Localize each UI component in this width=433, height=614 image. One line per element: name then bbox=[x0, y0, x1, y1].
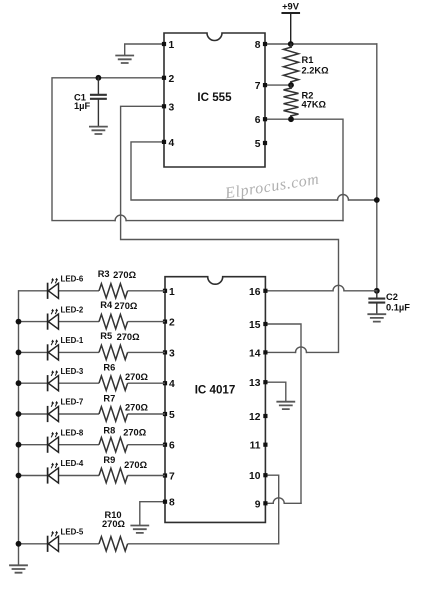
node rail junction LED-5 bbox=[16, 541, 22, 547]
svg-text:LED-4: LED-4 bbox=[61, 459, 84, 468]
svg-text:270Ω: 270Ω bbox=[124, 460, 148, 470]
svg-text:7: 7 bbox=[255, 81, 261, 92]
op-amp U2 : IC 4017 body bbox=[165, 277, 265, 523]
svg-text:11: 11 bbox=[250, 441, 261, 452]
svg-text:4: 4 bbox=[169, 138, 175, 149]
svg-text:270Ω: 270Ω bbox=[125, 403, 149, 413]
wire +9V right rail bbox=[376, 44, 378, 291]
node C1 junction bbox=[96, 75, 102, 81]
wire pin1 555 to ground bbox=[125, 44, 164, 55]
ground (LED rail) bbox=[10, 565, 27, 572]
svg-text:6: 6 bbox=[255, 115, 261, 126]
svg-text:R9: R9 bbox=[103, 455, 115, 465]
svg-text:5: 5 bbox=[255, 139, 261, 150]
svg-text:270Ω: 270Ω bbox=[123, 428, 147, 438]
svg-text:270Ω: 270Ω bbox=[113, 270, 137, 280]
wire pin3 555 to pin14 4017 bbox=[121, 106, 339, 352]
svg-text:8: 8 bbox=[169, 498, 175, 509]
resistor R3 bbox=[99, 284, 128, 298]
node R2/pin6 junction bbox=[288, 116, 294, 122]
wire pin9 4017 to pin15 bbox=[265, 498, 301, 503]
node pin4 rail junction bbox=[374, 197, 380, 203]
svg-text:IC 4017: IC 4017 bbox=[195, 383, 236, 396]
op-amp U1 : IC 555 body bbox=[164, 33, 265, 167]
wire R10 row bbox=[19, 543, 279, 545]
capacitor C2 bbox=[369, 291, 384, 313]
node rail junction LED-4 bbox=[16, 473, 22, 479]
svg-text:R8: R8 bbox=[103, 426, 115, 436]
wire R6 row bbox=[19, 382, 166, 384]
svg-text:2.2KΩ: 2.2KΩ bbox=[302, 66, 330, 76]
svg-text:1µF: 1µF bbox=[74, 101, 91, 111]
wire pin8 555 to rail bbox=[265, 43, 377, 45]
ground (555 pin 1) bbox=[116, 56, 133, 64]
node R1/R2/pin7 junction bbox=[288, 82, 294, 88]
pin number labels 555 bbox=[169, 40, 261, 150]
wire pin6 555 to pin2 wire bbox=[265, 119, 343, 220]
svg-text:13: 13 bbox=[249, 378, 261, 389]
wire left LED rail bbox=[18, 291, 20, 565]
svg-text:LED-3: LED-3 bbox=[61, 367, 84, 376]
svg-text:LED-7: LED-7 bbox=[61, 398, 84, 407]
wire R5 row bbox=[19, 351, 166, 353]
pin number labels 4017 bbox=[169, 287, 261, 511]
LED LED-6 bbox=[48, 278, 59, 299]
resistor R9 bbox=[99, 468, 128, 482]
resistor R10 bbox=[99, 537, 128, 551]
resistor R5 bbox=[99, 345, 128, 359]
node +9V junction bbox=[288, 41, 294, 47]
wire R8 row bbox=[19, 444, 166, 446]
ground (C2) bbox=[368, 314, 385, 321]
LED LED-8 bbox=[48, 432, 59, 453]
svg-text:LED-5: LED-5 bbox=[61, 528, 84, 537]
svg-text:5: 5 bbox=[169, 410, 175, 421]
node rail junction LED-2 bbox=[16, 319, 22, 325]
resistor R1 bbox=[284, 44, 299, 85]
svg-text:270Ω: 270Ω bbox=[102, 519, 126, 529]
node rail junction LED-7 bbox=[16, 411, 22, 417]
LED LED-1 bbox=[48, 339, 59, 360]
node rail junction LED-3 bbox=[16, 380, 22, 386]
svg-text:3: 3 bbox=[169, 348, 175, 359]
svg-text:16: 16 bbox=[249, 287, 261, 298]
svg-text:+9V: +9V bbox=[282, 2, 300, 12]
svg-text:R7: R7 bbox=[103, 394, 115, 404]
LED LED-3 bbox=[48, 370, 59, 391]
wire R4 row bbox=[19, 321, 166, 323]
capacitor C1 bbox=[91, 78, 106, 126]
resistor R2 bbox=[284, 85, 299, 119]
svg-text:15: 15 bbox=[249, 320, 261, 331]
4017 pin pads bbox=[163, 289, 268, 506]
node rail junction LED-8 bbox=[16, 442, 22, 448]
svg-text:C2: C2 bbox=[386, 292, 398, 302]
LED LED-5 bbox=[48, 531, 59, 552]
power +9V bbox=[283, 13, 300, 44]
svg-text:8: 8 bbox=[255, 40, 261, 51]
svg-text:1: 1 bbox=[169, 40, 175, 51]
svg-text:10: 10 bbox=[249, 471, 261, 482]
svg-text:R1: R1 bbox=[302, 55, 314, 65]
svg-text:0.1µF: 0.1µF bbox=[386, 303, 410, 313]
svg-text:6: 6 bbox=[169, 441, 175, 452]
svg-text:LED-8: LED-8 bbox=[61, 428, 84, 437]
wire R3 row bbox=[19, 290, 166, 292]
svg-text:47KΩ: 47KΩ bbox=[302, 100, 327, 110]
wire pin8 4017 to ground bbox=[140, 502, 165, 525]
svg-text:12: 12 bbox=[249, 412, 261, 423]
ground (4017 pin 13) bbox=[277, 402, 294, 409]
svg-text:2: 2 bbox=[169, 74, 175, 85]
svg-text:7: 7 bbox=[169, 472, 175, 483]
svg-text:9: 9 bbox=[255, 499, 261, 510]
svg-text:R6: R6 bbox=[103, 363, 115, 373]
wire R9 row bbox=[19, 475, 166, 477]
svg-text:LED-6: LED-6 bbox=[61, 275, 84, 284]
resistor R4 bbox=[99, 314, 128, 328]
555 pin pads bbox=[162, 42, 267, 145]
wire pin16 4017 to rail bbox=[265, 285, 376, 291]
node C2 junction bbox=[374, 288, 380, 294]
wire pin10 4017 down to R10 bbox=[265, 475, 278, 544]
svg-text:R5: R5 bbox=[100, 331, 112, 341]
svg-text:270Ω: 270Ω bbox=[125, 372, 149, 382]
ground (C1) bbox=[90, 127, 107, 134]
svg-text:2: 2 bbox=[169, 318, 175, 329]
resistor R6 bbox=[99, 376, 128, 390]
node rail junction LED-1 bbox=[16, 350, 22, 356]
svg-text:3: 3 bbox=[169, 102, 175, 113]
wire pin15 4017 down bbox=[265, 324, 301, 503]
svg-text:270Ω: 270Ω bbox=[114, 301, 138, 311]
svg-text:4: 4 bbox=[169, 379, 175, 390]
wire pin4 555 to +9V rail bbox=[131, 142, 377, 200]
svg-text:LED-1: LED-1 bbox=[61, 336, 84, 345]
svg-text:IC 555: IC 555 bbox=[197, 91, 232, 104]
ground (4017 pin 8) bbox=[131, 526, 148, 533]
LED LED-2 bbox=[48, 309, 59, 330]
resistor R8 bbox=[99, 438, 128, 452]
svg-text:270Ω: 270Ω bbox=[117, 332, 141, 342]
LED LED-4 bbox=[48, 462, 59, 483]
svg-text:14: 14 bbox=[249, 348, 261, 359]
wire pin2 555 left rail bbox=[52, 78, 343, 221]
wire pin7 555 bbox=[265, 84, 291, 86]
LED LED-7 bbox=[48, 401, 59, 422]
resistor R7 bbox=[99, 407, 128, 421]
svg-text:1: 1 bbox=[169, 287, 175, 298]
wire pin13 4017 to ground bbox=[265, 382, 285, 401]
svg-text:LED-2: LED-2 bbox=[61, 305, 84, 314]
svg-text:R4: R4 bbox=[100, 300, 113, 310]
svg-text:R3: R3 bbox=[98, 269, 110, 279]
wire R7 row bbox=[19, 413, 166, 415]
